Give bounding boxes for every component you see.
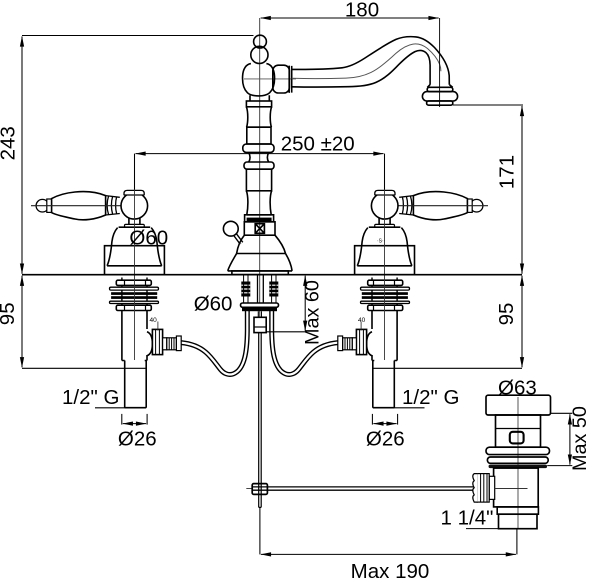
svg-text:1/2" G: 1/2" G [62, 386, 119, 409]
svg-text:Max 190: Max 190 [351, 560, 430, 583]
handle ball [121, 193, 148, 220]
dimension 243 line [21, 37, 23, 274]
column segment 5 waisted [246, 191, 271, 215]
spout root ring [289, 66, 292, 93]
dimension 95 left extension bottom [22, 367, 146, 369]
drain top flange [486, 395, 551, 415]
leader one-quarter inch [466, 528, 499, 530]
handle neck [129, 218, 140, 225]
dimension Max190 extension right [516, 529, 518, 555]
valve tail half-inch thread [125, 361, 147, 408]
clamp bracket plate [241, 303, 279, 307]
spout ball axis [244, 78, 296, 80]
under-deck hex nut 1 [116, 280, 151, 285]
dimension Max50 extension top [551, 412, 573, 414]
spout arm block [273, 65, 290, 93]
drain body [496, 415, 541, 447]
column waist [249, 152, 269, 162]
faucet main ball body [243, 64, 275, 96]
rod end inside drain [495, 488, 528, 490]
dimension diam26 left line [123, 423, 146, 425]
drain center line [517, 397, 519, 528]
svg-text:·S··: ·S·· [377, 239, 386, 245]
lever collar rings [106, 196, 120, 215]
valve body upper verticals [122, 278, 147, 312]
svg-text:40: 40 [358, 317, 366, 324]
svg-text:Ø26: Ø26 [366, 428, 405, 451]
under-deck hex nut 2 [116, 305, 151, 310]
column segment 2 concave [246, 107, 271, 127]
pop-up knob stem [235, 234, 242, 243]
leader half-inch-G right [394, 407, 425, 409]
dimension 95 right extension bottom [373, 367, 522, 369]
side port end ring [176, 336, 181, 351]
svg-text:243: 243 [0, 126, 20, 160]
pop-up rod [259, 333, 262, 508]
spacer dark bar 2 [111, 296, 157, 299]
dimension 250 line [136, 153, 384, 155]
handle cap [124, 190, 144, 195]
dimension 95 right line [521, 276, 523, 368]
svg-text:95: 95 [0, 302, 19, 325]
drain gasket [489, 465, 547, 469]
cartridge cross box [255, 224, 264, 234]
dimension 250 extension left [134, 154, 136, 190]
dimension diam26 right extensions [371, 414, 373, 425]
drain washer plate 2 [487, 457, 548, 463]
lever tip knob [36, 199, 49, 212]
center nut [254, 317, 266, 332]
washer wide lower [110, 301, 159, 303]
dimension 180 extension right / outlet axis [439, 18, 441, 107]
handle bonnet and dome [107, 227, 162, 266]
leader tiny 40 right [360, 322, 362, 331]
svg-text:Max 60: Max 60 [302, 280, 324, 345]
dimension Max190 extension left [259, 508, 261, 555]
drain step section [497, 507, 538, 514]
dimension Max60 line [304, 276, 306, 331]
dimension Max190 line [261, 553, 516, 555]
connector between bracket and nut [258, 311, 261, 317]
washer wide [110, 287, 159, 290]
svg-text:95: 95 [495, 303, 518, 326]
spout middle contour [292, 44, 441, 79]
dimension 95 left line [21, 276, 23, 368]
mounting stud left [241, 276, 250, 303]
center outlet tube [258, 276, 264, 303]
drain bottom tube [499, 514, 538, 529]
svg-text:1 1/4": 1 1/4" [441, 507, 494, 530]
mounting stud right [269, 276, 278, 303]
horizontal pop-up rod [253, 487, 474, 490]
dimension 180 line [261, 17, 439, 19]
horizontal rod left axis stub [246, 488, 252, 490]
dimension Max60 extension bottom [266, 331, 306, 333]
center base bell [228, 235, 292, 274]
handle center axis [134, 190, 136, 361]
rod clamp block [252, 484, 267, 495]
svg-text:Ø26: Ø26 [118, 428, 157, 451]
column ring bulge 2 [244, 162, 274, 169]
drain washer plate 1 [486, 447, 550, 454]
svg-text:171: 171 [496, 155, 519, 189]
side port dome [147, 332, 152, 356]
faucet top small ball [254, 35, 267, 48]
spout root cone [273, 37, 450, 93]
column segment 1 [246, 101, 271, 107]
column center axis [259, 18, 261, 317]
base block [244, 222, 275, 235]
side port threads [167, 338, 177, 350]
valve body [122, 311, 147, 361]
column ring bulge 1 [243, 144, 274, 152]
lever axis line [31, 205, 148, 207]
spacer dark bar 1 [111, 292, 157, 295]
svg-text:Ø60: Ø60 [194, 293, 233, 316]
drain ribbed nut [473, 474, 495, 503]
dimension diam26 right line [373, 423, 396, 425]
side port stub [163, 338, 167, 350]
leader tiny 40 left [157, 322, 159, 331]
dimension Max50 line [569, 414, 571, 464]
drain square hole [510, 432, 524, 444]
leader half-inch-G left [95, 407, 126, 409]
dimension 243 extension top [22, 35, 254, 37]
clamp bracket dark bar [242, 308, 277, 311]
side port hex nut [152, 329, 162, 354]
svg-text:40: 40 [150, 317, 158, 324]
column neck under ball [250, 95, 269, 101]
faucet medium ball [251, 46, 268, 63]
svg-text:Ø63: Ø63 [498, 377, 537, 400]
svg-text:1/2" G: 1/2" G [402, 386, 459, 409]
drain tail body [494, 468, 539, 507]
svg-text:Ø60: Ø60 [129, 226, 168, 249]
spout bottom contour [292, 50, 430, 87]
right valve group (mirror of left about x=259.5) [272, 190, 488, 408]
svg-text:Max 50: Max 50 [569, 406, 591, 471]
spout top contour [292, 37, 450, 85]
center base ring [232, 271, 288, 275]
column segment 3 [247, 127, 271, 144]
dimension 171 extension top [453, 104, 523, 106]
lever body [52, 192, 106, 220]
dimension 171 line [521, 106, 523, 274]
svg-text:250 ±20: 250 ±20 [281, 132, 355, 155]
dimension diam26 left extensions [121, 414, 123, 425]
lever tip collar [47, 199, 52, 212]
column segment 4 [246, 169, 271, 191]
dimension 250 extension right [384, 154, 386, 190]
flexible hose [181, 310, 247, 374]
escutcheon cylinder diam60 [105, 246, 165, 275]
dimension Max50 extension bottom [547, 465, 572, 467]
deck mounting surface line [22, 274, 522, 276]
svg-text:180: 180 [345, 0, 379, 22]
pop-up knob [223, 221, 238, 236]
column bottom band [245, 215, 274, 222]
spout outlet flare [422, 85, 457, 106]
